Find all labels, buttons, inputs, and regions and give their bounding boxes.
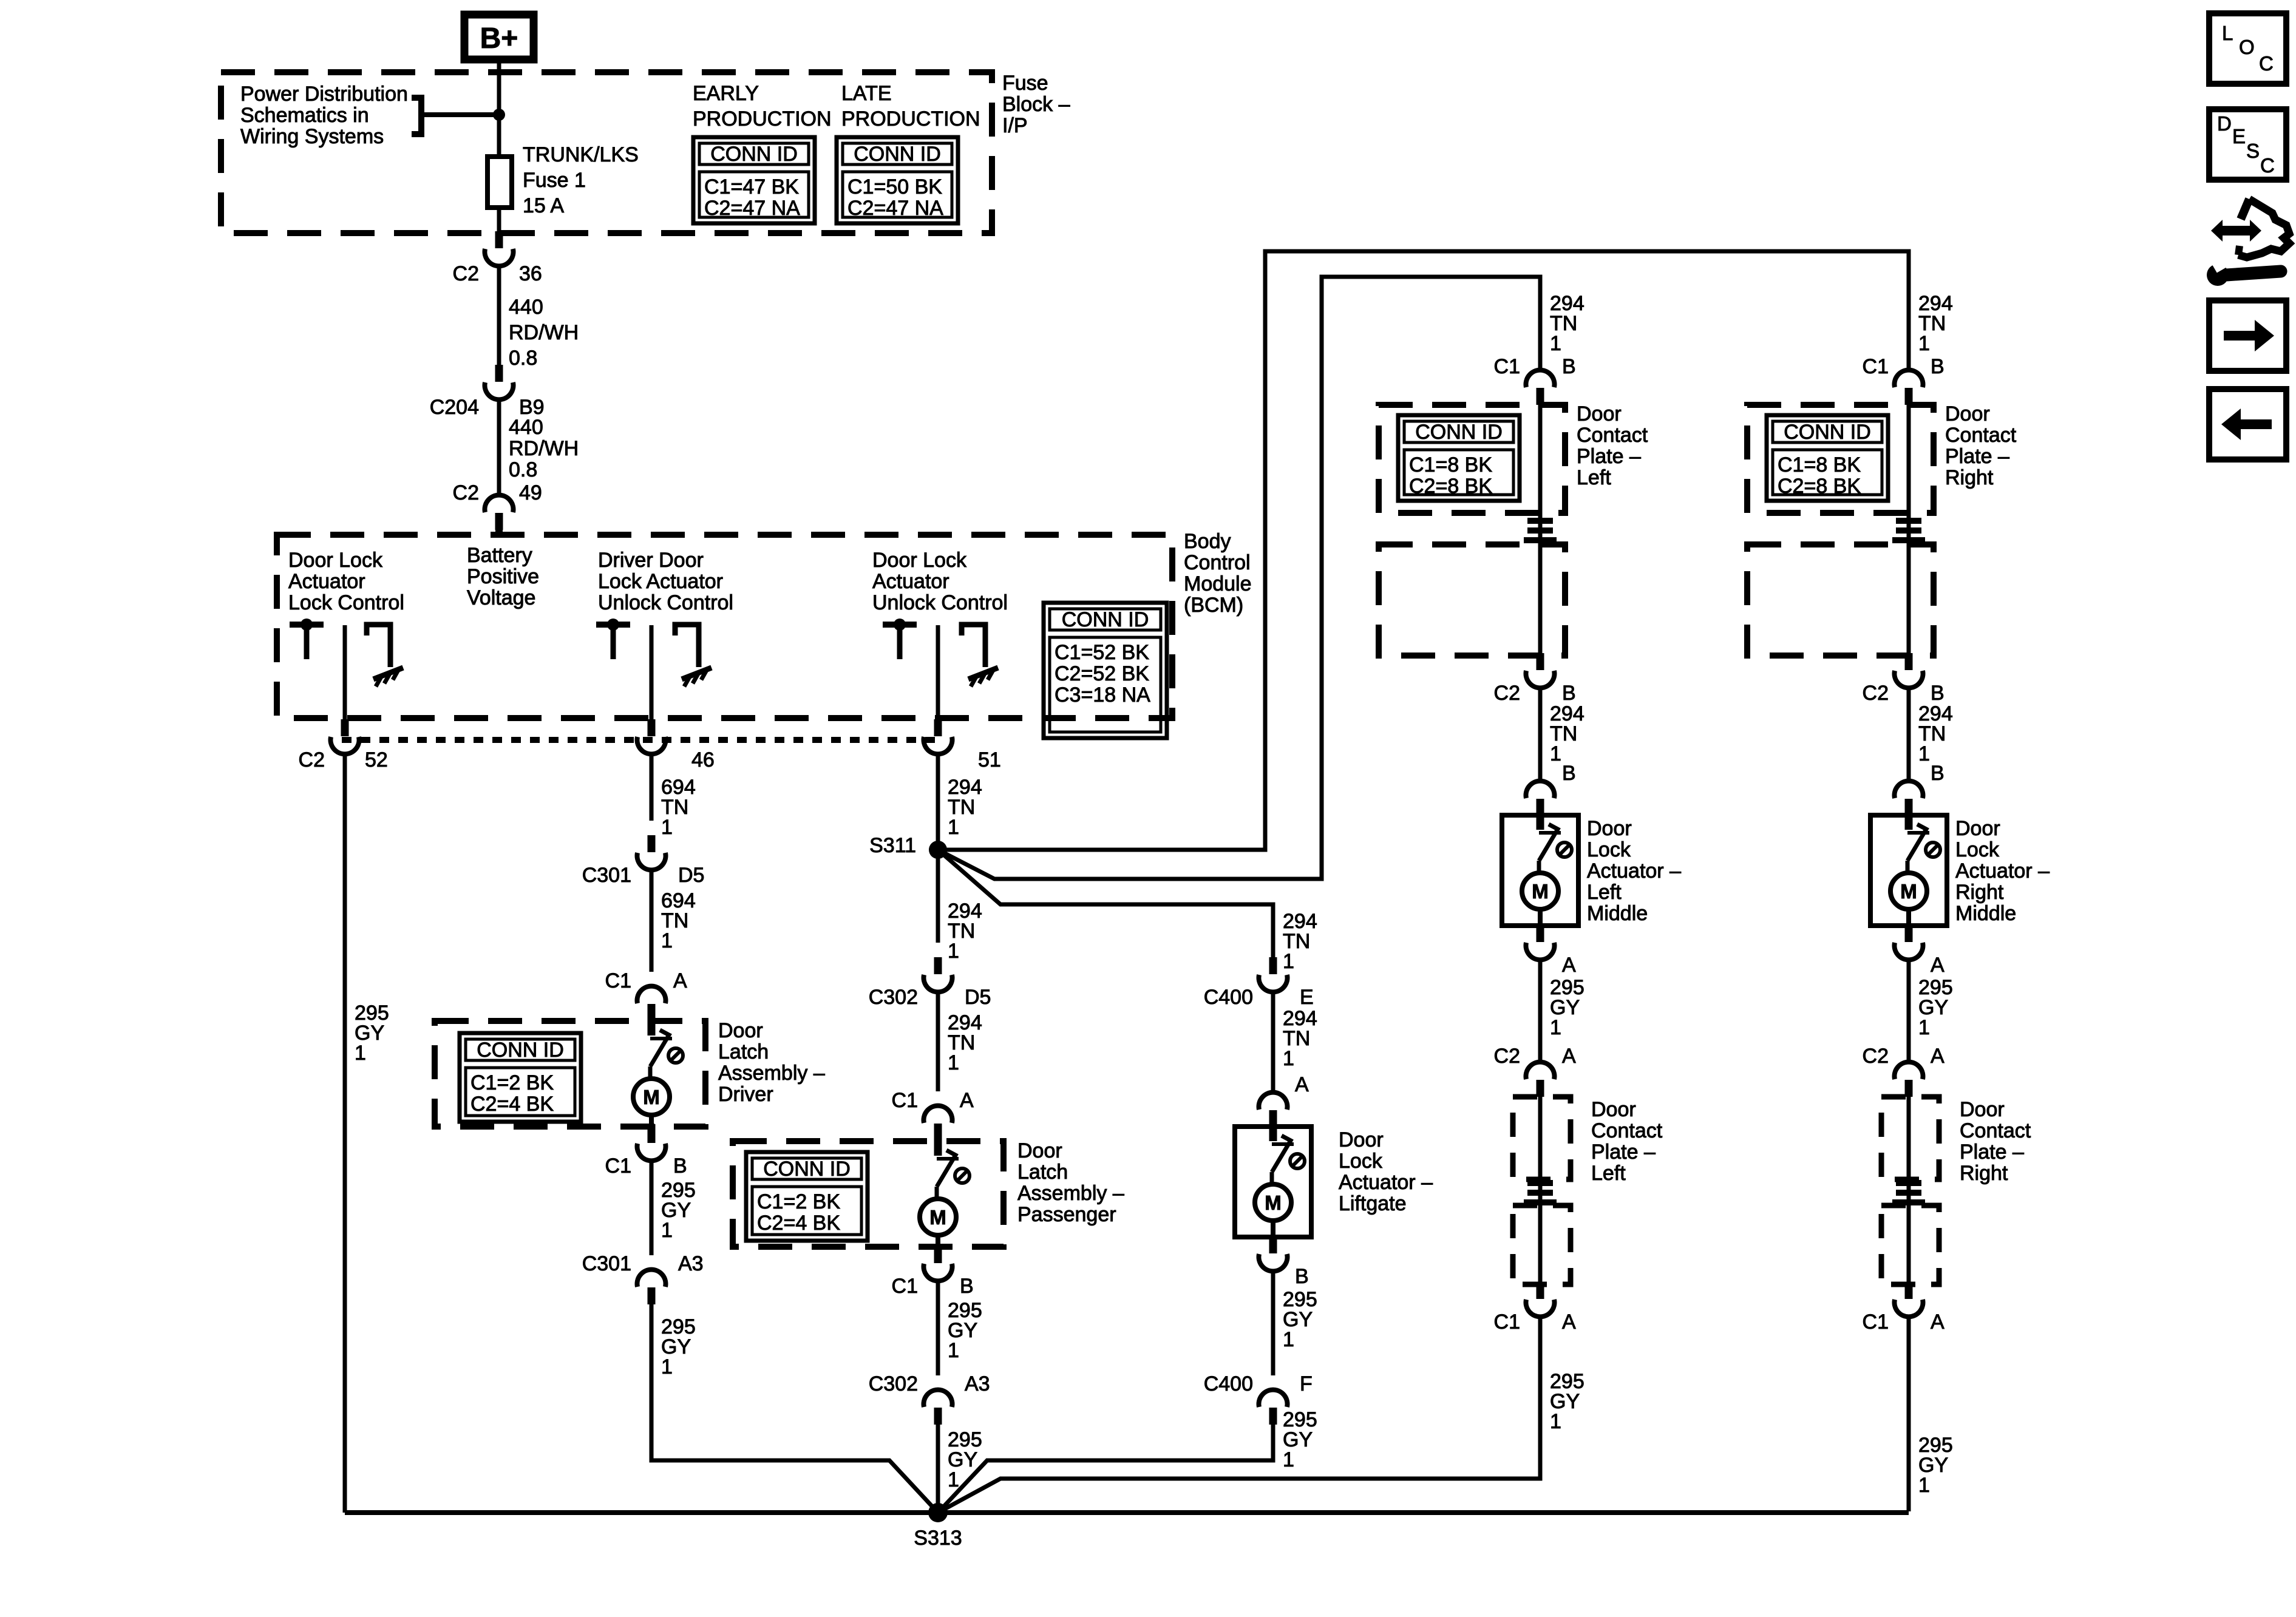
svg-text:C2=47 NA: C2=47 NA <box>847 197 943 220</box>
conn id table Left contact plate C1=8 BK C2=8 BK <box>1398 415 1520 501</box>
connector C2 pin B Left <box>1526 653 1555 688</box>
svg-text:C2: C2 <box>1494 682 1520 705</box>
svg-text:CONN ID: CONN ID <box>854 143 941 166</box>
svg-text:C1: C1 <box>605 969 631 992</box>
svg-text:C2=52 BK: C2=52 BK <box>1055 662 1149 685</box>
connector C2 pin A Right <box>1895 1062 1923 1097</box>
connector C1 pin B driver latch output <box>637 1126 666 1161</box>
wire 295 GY 1 driver return to S313 <box>651 1288 938 1513</box>
svg-text:B: B <box>960 1275 974 1298</box>
connector pin 46 <box>637 719 666 754</box>
svg-text:C2: C2 <box>299 748 325 771</box>
svg-text:C2: C2 <box>1494 1045 1520 1068</box>
svg-text:B: B <box>1295 1265 1309 1288</box>
connector C1 pin A passenger latch <box>924 1106 953 1141</box>
svg-text:B: B <box>1931 762 1944 785</box>
svg-text:B: B <box>1562 762 1576 785</box>
svg-text:C1=2 BK: C1=2 BK <box>757 1190 840 1213</box>
svg-text:CONN ID: CONN ID <box>477 1039 564 1062</box>
door latch assembly driver dashed box <box>435 1021 705 1127</box>
wire 295 GY 1 left middle return <box>938 1315 1540 1513</box>
svg-text:52: 52 <box>365 748 388 771</box>
ground bus wire S313 horizontal <box>345 1510 1909 1515</box>
connector C302 pin D5 <box>924 957 953 992</box>
svg-text:C1=50 BK: C1=50 BK <box>847 175 942 198</box>
svg-text:A3: A3 <box>678 1252 704 1275</box>
wire into Right lower contact plate <box>1907 1080 1911 1205</box>
svg-text:CONN ID: CONN ID <box>1784 421 1871 444</box>
wire bracket tap to B+ feed <box>421 112 499 117</box>
conn id table late production C1=50 BK C2=47 NA <box>837 137 958 223</box>
svg-text:C301: C301 <box>582 1252 631 1275</box>
svg-text:C1: C1 <box>1494 355 1520 378</box>
wire S311 branch to liftgate <box>938 850 1273 958</box>
connector C1 pin A driver latch <box>637 986 666 1021</box>
splice S311 <box>929 841 947 859</box>
wire 295 GY 1 liftgate to C400 F <box>1271 1270 1275 1375</box>
svg-text:C: C <box>2259 52 2274 75</box>
svg-text:C400: C400 <box>1204 986 1253 1009</box>
BCM output driver symbol 2 (driver unlock) <box>596 619 630 659</box>
connector pin B into Right actuator <box>1895 781 1923 816</box>
connector C1 pin A Left bottom <box>1526 1282 1555 1317</box>
svg-text:C302: C302 <box>869 986 918 1009</box>
wire 295 GY 1 liftgate return to S313 <box>938 1408 1273 1513</box>
svg-text:M: M <box>1265 1192 1282 1214</box>
connector C1 pin B passenger latch output <box>924 1246 953 1281</box>
connector pin B into Left actuator <box>1526 781 1555 816</box>
BCM pin wire 46 <box>650 625 654 720</box>
svg-text:C1: C1 <box>1863 1310 1889 1334</box>
BCM pin wire 52 <box>343 625 347 720</box>
door contact plate Left upper dashed box <box>1379 405 1565 513</box>
splice S313 <box>928 1503 948 1522</box>
svg-text:C2=4 BK: C2=4 BK <box>470 1093 554 1116</box>
door lock actuator Left middle box <box>1502 815 1578 926</box>
connector pin B liftgate output <box>1259 1236 1288 1271</box>
svg-text:B: B <box>673 1154 687 1178</box>
BCM internal ground symbol 1 <box>367 625 403 686</box>
svg-text:C302: C302 <box>869 1372 918 1395</box>
wire 440 RD/WH 0.8 lower segment <box>497 398 501 497</box>
svg-text:C204: C204 <box>430 396 479 419</box>
wire 295 GY 1 driver latch to C301 A3 <box>650 1159 654 1255</box>
svg-text:C400: C400 <box>1204 1372 1253 1395</box>
svg-text:CONN ID: CONN ID <box>1062 608 1149 631</box>
svg-text:A: A <box>1295 1073 1309 1096</box>
junction dot at B+ feed tap <box>493 109 505 121</box>
svg-text:A: A <box>673 969 687 992</box>
conn id table BCM C1=52 BK C2=52 BK C3=18 NA <box>1044 603 1167 738</box>
svg-text:B+: B+ <box>480 22 518 55</box>
BCM internal ground symbol 2 <box>675 625 712 686</box>
door contact plate Left second lower dashed box <box>1513 1205 1571 1284</box>
conn id table driver latch C1=2 BK C2=4 BK <box>460 1033 581 1122</box>
connector C302 pin A3 <box>924 1390 953 1425</box>
connector C1 pin A Right bottom <box>1895 1282 1923 1317</box>
svg-text:A: A <box>1562 954 1576 977</box>
switch and motor M Left middle actuator <box>1522 813 1572 941</box>
wire through Right lower plate <box>1907 1202 1911 1284</box>
connector C204 pin B9 <box>485 365 514 399</box>
body control module dashed box (BCM) <box>277 535 1172 718</box>
BCM output driver symbol 1 (lock control) <box>290 619 324 659</box>
svg-text:C1: C1 <box>1494 1310 1520 1334</box>
svg-text:B: B <box>1562 682 1576 705</box>
BCM connector dotted line <box>342 737 940 743</box>
svg-text:C2=8 BK: C2=8 BK <box>1409 475 1492 498</box>
svg-text:B: B <box>1562 355 1576 378</box>
svg-text:C1: C1 <box>892 1275 918 1298</box>
conn id table passenger latch C1=2 BK C2=4 BK <box>746 1152 868 1241</box>
svg-text:A3: A3 <box>965 1372 990 1395</box>
svg-text:C: C <box>2260 154 2275 177</box>
svg-text:B: B <box>1931 355 1944 378</box>
door contact plate Right lower dashed box <box>1747 544 1934 656</box>
switch and motor M driver latch <box>633 1019 683 1142</box>
svg-text:E: E <box>1300 986 1314 1009</box>
wire through Left contact plate <box>1538 405 1543 654</box>
fuse block dashed box (Fuse Block - I/P) <box>221 72 992 233</box>
svg-text:C1=2 BK: C1=2 BK <box>470 1071 554 1094</box>
wire 295 GY 1 right return to S313 bus <box>1907 1315 1911 1511</box>
wire 294 TN 1 Left to actuator <box>1538 686 1543 782</box>
connector C2 pin A Left <box>1526 1062 1555 1097</box>
fuse TRUNK/LKS Fuse 1 15 A <box>487 157 512 208</box>
BCM pin wire 51 <box>936 625 940 720</box>
connector C400 pin F <box>1259 1390 1288 1425</box>
svg-text:S: S <box>2246 140 2260 162</box>
svg-text:C1: C1 <box>1863 355 1889 378</box>
svg-text:B: B <box>1931 682 1944 705</box>
svg-text:D5: D5 <box>678 864 704 887</box>
wire 440 RD/WH 0.8 upper segment <box>497 265 501 365</box>
wire fuse to connector C2 36 <box>497 208 501 234</box>
connector C2 pin 36 <box>485 231 514 266</box>
BCM output driver symbol 3 (unlock) <box>883 619 917 659</box>
svg-text:51: 51 <box>978 748 1001 771</box>
door contact plate Right second upper dashed box <box>1881 1097 1939 1179</box>
svg-text:CONN ID: CONN ID <box>763 1158 851 1181</box>
switch and motor M passenger latch <box>920 1139 970 1263</box>
svg-text:S313: S313 <box>914 1527 962 1550</box>
svg-text:C3=18 NA: C3=18 NA <box>1055 683 1150 707</box>
contact plate symbol Left upper <box>1524 521 1557 540</box>
wire 294 TN 1 to passenger latch <box>936 991 940 1091</box>
power symbol B+ <box>464 15 534 59</box>
svg-text:C1: C1 <box>605 1154 631 1178</box>
connector C2 pin 52 <box>331 719 359 754</box>
svg-text:A: A <box>1562 1045 1576 1068</box>
nav icon LOC box <box>2209 13 2286 84</box>
wire B+ to fuse <box>497 59 501 157</box>
nav icon forward arrow box <box>2209 300 2286 371</box>
svg-text:A: A <box>1931 1310 1944 1334</box>
svg-text:C1: C1 <box>892 1089 918 1112</box>
svg-text:C2: C2 <box>1863 1045 1889 1068</box>
svg-text:36: 36 <box>519 262 542 285</box>
svg-text:A: A <box>960 1089 974 1112</box>
door contact plate Left second upper dashed box <box>1513 1097 1571 1179</box>
wire 294 TN 1 Right to actuator <box>1907 686 1911 782</box>
svg-text:49: 49 <box>519 481 542 504</box>
svg-text:L: L <box>2222 22 2233 44</box>
connector C301 pin A3 <box>637 1270 666 1304</box>
svg-text:C2: C2 <box>1863 682 1889 705</box>
svg-text:C1=52 BK: C1=52 BK <box>1055 641 1149 664</box>
connector C400 pin E <box>1259 957 1288 992</box>
svg-text:D5: D5 <box>965 986 991 1009</box>
nav icon back arrow box <box>2209 389 2286 459</box>
svg-text:A: A <box>1562 1310 1576 1334</box>
door lock actuator liftgate box <box>1235 1127 1311 1237</box>
door contact plate Right upper dashed box <box>1747 405 1934 513</box>
contact plate symbol Left lower <box>1524 1183 1557 1202</box>
conn id table Right contact plate C1=8 BK C2=8 BK <box>1767 415 1888 501</box>
connector pin A Left actuator output <box>1526 925 1555 960</box>
svg-text:A: A <box>1931 954 1944 977</box>
wire C2 49 stub into BCM <box>495 529 503 537</box>
connector pin A liftgate <box>1259 1093 1288 1127</box>
contact plate symbol Right lower <box>1892 1183 1925 1202</box>
svg-text:C2: C2 <box>453 481 479 504</box>
svg-text:C2: C2 <box>453 262 479 285</box>
wire 294 TN 1 to liftgate actuator <box>1271 991 1275 1094</box>
contact plate symbol Right upper <box>1892 521 1925 540</box>
nav icon adjust two-way arrow with wrench and hand <box>2207 199 2289 286</box>
BCM internal ground symbol 3 <box>962 625 998 686</box>
connector C2 pin 49 into BCM <box>485 495 514 530</box>
wire 295 GY 1 Left actuator to C2 A <box>1538 958 1543 1063</box>
door latch assembly passenger dashed box <box>733 1141 1004 1247</box>
switch and motor M liftgate actuator <box>1255 1124 1305 1253</box>
door contact plate Right second lower dashed box <box>1881 1205 1939 1284</box>
svg-text:BatteryPositiveVoltage: BatteryPositiveVoltage <box>467 544 539 609</box>
svg-text:C1=8 BK: C1=8 BK <box>1778 453 1861 476</box>
wire S311 branch to right door circuit (outer) <box>938 251 1909 850</box>
svg-text:M: M <box>643 1086 660 1108</box>
svg-text:M: M <box>1900 880 1917 903</box>
wire S311 down to C302 <box>936 850 940 943</box>
connector pin A Right actuator output <box>1895 925 1923 960</box>
svg-text:M: M <box>1532 880 1549 903</box>
svg-text:A: A <box>1931 1045 1944 1068</box>
svg-text:F: F <box>1300 1372 1313 1395</box>
wire pin 46 to C301 <box>650 753 654 821</box>
connector C301 pin D5 <box>637 835 666 870</box>
switch and motor M Right middle actuator <box>1890 813 1940 941</box>
wire 295 GY 1 from pin 52 down to S313 bus <box>343 753 347 1513</box>
svg-text:E: E <box>2232 125 2246 147</box>
connector pin 51 <box>924 719 953 754</box>
wire S311 branch to left middle door circuit (inner) <box>938 277 1540 879</box>
svg-text:CONN ID: CONN ID <box>1415 421 1503 444</box>
svg-text:C1=8 BK: C1=8 BK <box>1409 453 1492 476</box>
nav icon DESC box <box>2209 109 2286 180</box>
bracket symbol for power distribution reference <box>412 98 421 134</box>
conn id table early production C1=47 BK C2=47 NA <box>693 137 815 223</box>
wire 295 GY 1 passenger latch to C302 A3 <box>936 1280 940 1375</box>
wire through Right contact plate <box>1907 405 1911 654</box>
door contact plate Left lower dashed box <box>1379 544 1565 656</box>
svg-text:C301: C301 <box>582 864 631 887</box>
door lock actuator Right middle box <box>1870 815 1947 926</box>
wire pin 51 to S311 <box>936 753 940 850</box>
wire 694 TN 1 to driver latch <box>650 869 654 972</box>
svg-text:S311: S311 <box>869 834 916 857</box>
wire 295 GY 1 passenger return to S313 <box>936 1408 940 1513</box>
svg-text:O: O <box>2239 36 2255 58</box>
svg-text:C2=4 BK: C2=4 BK <box>757 1212 840 1235</box>
svg-text:46: 46 <box>691 748 715 771</box>
wire into Left lower contact plate <box>1538 1080 1543 1205</box>
svg-text:CONN ID: CONN ID <box>710 143 798 166</box>
connector C2 pin B Right <box>1895 653 1923 688</box>
svg-text:C1=47 BK: C1=47 BK <box>704 175 799 198</box>
svg-text:D: D <box>2217 112 2232 135</box>
svg-text:M: M <box>929 1206 946 1229</box>
svg-text:C2=47 NA: C2=47 NA <box>704 197 800 220</box>
svg-text:C2=8 BK: C2=8 BK <box>1778 475 1861 498</box>
wire 295 GY 1 Right actuator to C2 A <box>1907 958 1911 1063</box>
wire through Left lower plate <box>1538 1202 1543 1284</box>
